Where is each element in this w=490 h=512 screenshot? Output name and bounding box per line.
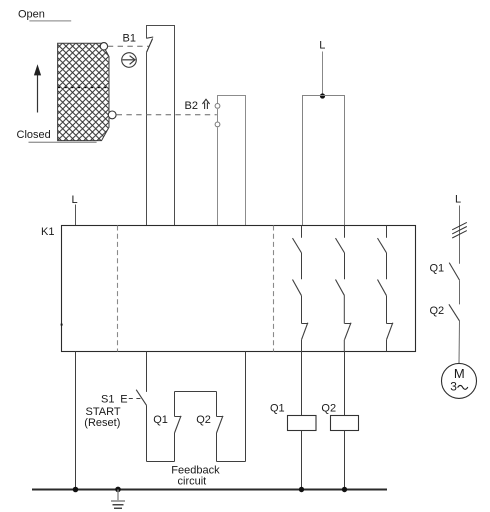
label E — [120, 394, 127, 406]
S1 actuator dashes E-- — [129, 398, 143, 400]
bottom bus (PE/N rail) — [32, 489, 387, 491]
label L (supply, top centre) — [319, 40, 325, 52]
label circuit — [178, 476, 207, 488]
label Feedback — [171, 465, 220, 477]
svg-text:3: 3 — [450, 380, 457, 394]
svg-text:circuit: circuit — [178, 476, 207, 488]
door cam pin for B1 — [100, 43, 107, 50]
svg-text:B1: B1 — [123, 33, 136, 45]
svg-text:Closed: Closed — [17, 129, 51, 141]
K1 contact column 1 — [293, 226, 309, 352]
label (Reset) — [84, 417, 120, 429]
guard door (hatched) — [58, 43, 109, 140]
svg-text:(Reset): (Reset) — [84, 417, 120, 429]
label Q1 (main contact) — [430, 262, 445, 274]
contactor Q2 main contact — [449, 304, 460, 321]
node ground junction — [115, 487, 121, 493]
svg-text:Q1: Q1 — [430, 262, 445, 274]
positive-opening arrow — [202, 99, 209, 109]
door cam pin for B2 — [108, 111, 116, 119]
svg-text:S1: S1 — [101, 394, 114, 406]
node coil Q1 junction — [299, 487, 304, 492]
door travel arrow — [34, 64, 41, 112]
feedback bottom bar left — [147, 461, 175, 463]
door split dashed line — [58, 87, 109, 89]
label Open — [18, 8, 45, 20]
svg-text:Q1: Q1 — [153, 414, 168, 426]
svg-text:Open: Open — [18, 8, 45, 20]
partition dashed line right — [273, 226, 275, 352]
actuator dashed link to B2 — [117, 114, 217, 116]
wire L supply drop — [322, 52, 324, 96]
node terminal nub on K1 left edge — [61, 324, 63, 326]
svg-text:Q2: Q2 — [430, 305, 445, 317]
K1 contact column 3 — [378, 226, 394, 352]
closed position line — [29, 141, 97, 143]
wire to coil Q2 — [344, 352, 346, 416]
svg-text:E: E — [120, 394, 127, 406]
svg-text:Q1: Q1 — [270, 402, 285, 414]
ground — [111, 490, 125, 509]
K1 contact column 2 — [336, 226, 352, 352]
svg-text:Q2: Q2 — [196, 414, 211, 426]
node coil Q2 junction — [342, 487, 347, 492]
motor M 3~ — [442, 363, 477, 398]
svg-text:L: L — [319, 40, 325, 52]
position switch B2 (channel rectangle with plunger contacts) — [215, 96, 245, 226]
safety relay K1 box — [62, 226, 416, 352]
proximity actuation symbol — [122, 53, 137, 68]
label B1 — [123, 33, 136, 45]
coil Q1 — [288, 416, 317, 431]
node supply junction — [320, 93, 325, 98]
svg-text:B2: B2 — [185, 100, 198, 112]
label K1 — [41, 226, 54, 238]
wire feedback return to K1 — [245, 352, 247, 462]
label Q1 (feedback) — [153, 414, 168, 426]
node bus junction left — [73, 487, 79, 493]
coil Q2 — [331, 416, 359, 431]
label L (left input) — [72, 194, 78, 206]
wire K1 output to bus — [75, 352, 77, 490]
open position line — [29, 20, 71, 22]
label B2 — [185, 100, 198, 112]
feedback bottom bar right — [217, 461, 246, 463]
wire between Q1 and Q2 — [459, 280, 461, 304]
feedback contact Q2 (NC mirror) — [217, 392, 224, 462]
wire to motor — [458, 321, 461, 364]
label L (motor feed) — [455, 193, 461, 205]
partition dashed line left — [117, 226, 119, 352]
label START — [86, 406, 121, 418]
svg-text:K1: K1 — [41, 226, 54, 238]
label Q2 (coil) — [321, 402, 336, 414]
three-phase slashes — [452, 222, 467, 238]
pushbutton S1 (NO, manual reset) — [136, 390, 146, 406]
label Closed — [17, 129, 51, 141]
wire left L input — [75, 205, 77, 226]
svg-text:L: L — [72, 194, 78, 206]
svg-text:Q2: Q2 — [321, 402, 336, 414]
wire coil Q2 to bus — [344, 431, 346, 490]
svg-text:L: L — [455, 193, 461, 205]
wire coil Q1 to bus — [301, 431, 303, 490]
contactor Q1 main contact — [449, 263, 459, 281]
wire S1 branch upper — [146, 352, 148, 392]
supply channel rectangle — [303, 96, 345, 226]
feedback contact Q1 (NC mirror) — [175, 392, 182, 462]
label Q2 (feedback) — [196, 414, 211, 426]
wire S1 branch lower — [146, 405, 148, 461]
wire motor feed upper — [459, 206, 461, 264]
feedback top bar — [175, 391, 217, 393]
label Q2 (main contact) — [430, 305, 445, 317]
label Q1 (coil) — [270, 402, 285, 414]
position switch B1 (NC, channel rectangle) — [147, 26, 175, 226]
wire to coil Q1 — [301, 352, 303, 416]
label S1 — [101, 394, 114, 406]
actuator dashed link to B1 — [108, 45, 149, 47]
